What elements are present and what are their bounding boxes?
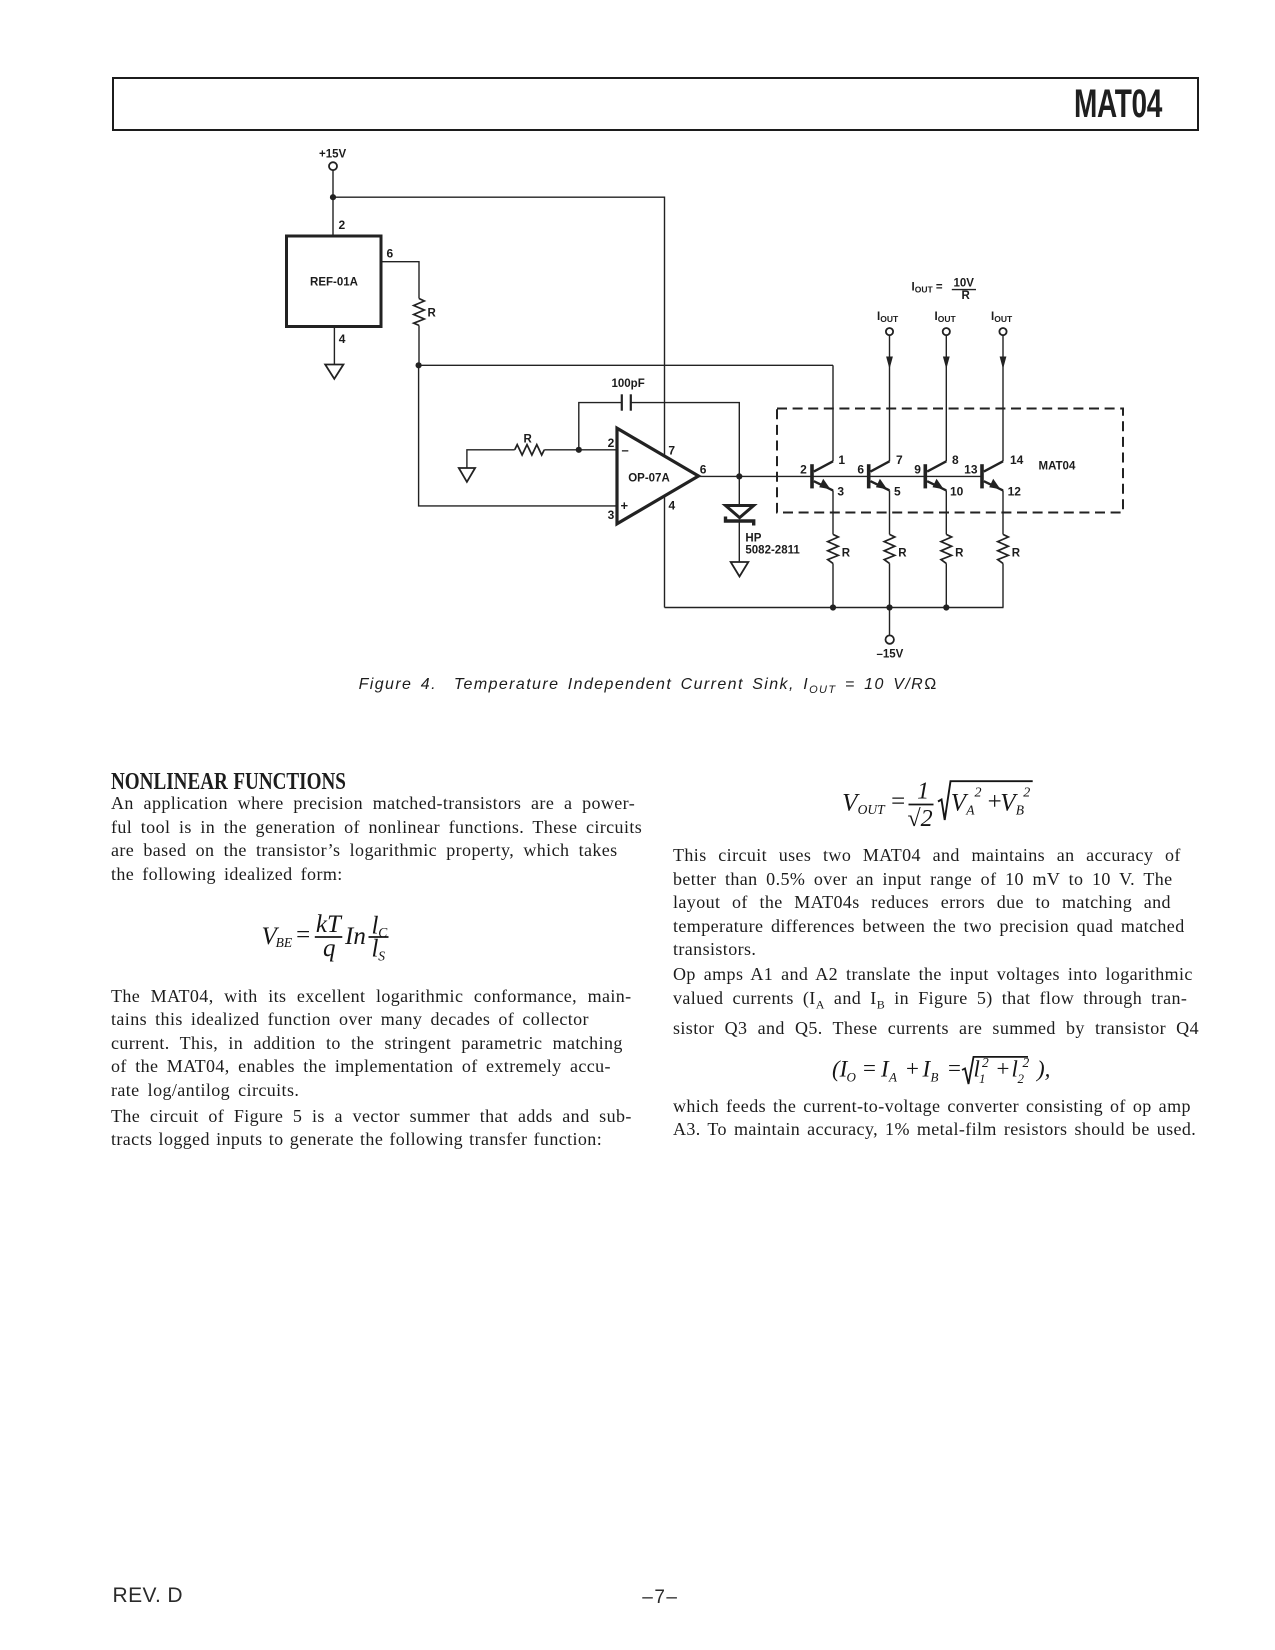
svg-text:MAT04: MAT04 [1039,460,1076,472]
svg-text:REF-01A: REF-01A [310,277,358,289]
svg-text:1: 1 [979,1071,986,1086]
svg-text:+: + [621,498,629,513]
node reference voltage [416,362,422,368]
figure caption [11,676,1275,696]
transistor Q2 base bar [867,464,871,488]
svg-text:A: A [888,1069,897,1084]
+15V terminal [329,162,337,170]
junction +15V node [330,194,336,200]
right column paragraph 3 [673,1095,1196,1142]
resistor R4 (Q2 emitter) [884,534,895,563]
svg-text:O: O [847,1069,857,1084]
wire +15V rail to op-amp pin 7 [333,197,665,456]
svg-text:–15V: –15V [877,649,904,661]
transistor Q1 collector lead [814,461,833,471]
svg-text:4: 4 [669,499,676,513]
I_O formula [825,1048,1060,1092]
dashed package outline MAT04 [777,409,1123,513]
svg-text:10V: 10V [954,277,975,289]
wire REF-01A pin 4 to ground [333,327,335,365]
wire Q1 collector riser [832,365,834,461]
svg-text:2: 2 [1018,1071,1025,1086]
V_BE formula [255,905,420,967]
REF-01A U1 box [287,236,382,327]
wire R6 to rail [1002,563,1004,607]
transistor Q4 collector lead [984,461,1003,471]
transistor Q1 emitter arrow [819,479,830,489]
svg-text:kT: kT [316,911,343,938]
svg-text:6: 6 [387,247,394,261]
wire R3 to rail [832,563,834,607]
wire +15V to REF-01A pin 2 [332,170,334,236]
junction rail Q3 [943,604,949,610]
svg-text:5: 5 [894,485,901,499]
left column paragraph 1 [111,792,642,886]
wire IOUT 1 to Q2 collector [889,335,891,461]
wire Q4 emitter to R6 [1002,490,1004,534]
right column paragraph 2 [673,963,1199,1040]
svg-text:BE: BE [276,935,293,950]
svg-text:+: + [905,1056,921,1081]
svg-text:7: 7 [668,444,675,458]
svg-text:R: R [428,308,437,320]
svg-text:4: 4 [339,332,346,346]
transistor Q3 emitter lead [927,481,946,490]
transistor Q3 emitter arrow [933,479,944,489]
wire output node to diode D1 [738,476,740,505]
svg-text:B: B [1016,803,1024,818]
wire R2 to inverting node [544,449,616,451]
transistor Q4 emitter lead [984,481,1003,490]
svg-text:R: R [524,433,533,445]
transistor Q1 emitter lead [814,481,833,490]
right column paragraph 1 [673,844,1185,962]
wire R4 to rail [889,563,891,607]
svg-text:R: R [842,548,851,560]
V_OUT formula [835,772,1045,834]
schematic figure 4 [0,0,1275,670]
wire capacitor to output node [631,403,740,477]
resistor R1 (reference set) [414,299,425,326]
svg-text:B: B [931,1069,939,1084]
svg-text:10: 10 [950,485,964,499]
transistor Q3 base bar [924,464,928,488]
transistor Q1 base bar [810,464,814,488]
diode D1 schottky cathode bar [726,517,754,526]
svg-text:1: 1 [838,453,845,467]
svg-text:R: R [1012,548,1021,560]
svg-text:HP: HP [745,533,761,545]
svg-text:13: 13 [964,463,978,477]
wire R1 to reference node [418,325,420,365]
wire Q1 emitter to R3 [832,490,834,534]
svg-text:R: R [962,290,971,302]
svg-text:2: 2 [339,218,346,232]
svg-text:OUT: OUT [858,802,886,817]
left column heading [111,770,346,794]
wire Q2 emitter to R4 [889,490,891,534]
svg-text:=: = [295,922,312,949]
wire Q3 emitter to R5 [945,490,947,534]
svg-text:7: 7 [896,453,903,467]
svg-text:IOUT: IOUT [991,311,1013,324]
svg-text:R: R [955,548,964,560]
current arrow 1 [886,357,893,370]
ground (diode) [731,562,749,577]
wire IOUT 3 to Q4 collector [1002,335,1004,461]
wire R5 to rail [945,563,947,607]
footer page number [23,1587,1275,1609]
capacitor C1 100pF plates [621,394,623,410]
transistor Q4 emitter arrow [989,479,1000,489]
svg-text:6: 6 [857,463,864,477]
resistor R5 (Q3 emitter) [941,534,952,563]
svg-text:–: – [622,442,629,457]
ground (input resistor) [459,468,475,482]
svg-text:8: 8 [952,453,959,467]
resistor R3 (Q1 emitter) [828,534,839,563]
wire ground to input resistor [467,450,515,468]
node inverting input [576,447,582,453]
svg-text:+: + [995,1056,1011,1081]
wire node to Q1 collector [419,364,833,366]
resistor R6 (Q4 emitter) [998,534,1009,563]
transistor Q2 collector lead [871,461,890,471]
svg-text:In: In [344,923,366,950]
op-amp U2 OP-07A body [617,428,699,524]
svg-text:S: S [378,949,385,964]
svg-text:3: 3 [837,485,844,499]
wire IOUT 2 to Q3 collector [945,335,947,461]
svg-text:),: ), [1035,1057,1050,1082]
resistor R2 (input) [515,445,545,455]
MAT04 part number logotype [1022,82,1162,127]
svg-text:9: 9 [914,463,921,477]
svg-text:=: = [862,1056,878,1081]
wire pin 6 to resistor R1 [383,262,420,299]
IOUT equation: IOUT = 10V/R [912,277,975,302]
wire diode to ground [738,521,740,562]
svg-text:IOUT: IOUT [935,311,957,324]
svg-text:3: 3 [608,508,615,522]
svg-text:IOUT: IOUT [877,311,899,324]
wire inverting node up to capacitor [579,403,621,450]
junction rail Q2 [886,604,892,610]
svg-text:2: 2 [975,785,982,800]
svg-text:2: 2 [800,463,807,477]
current arrow 3 [1000,357,1007,370]
wire node to op-amp non-inverting input [419,365,616,506]
left column paragraph 2 [111,985,632,1103]
transistor Q2 emitter lead [871,481,890,490]
svg-text:A: A [965,803,975,818]
footer revision [113,1584,184,1608]
transistor Q4 base bar [980,464,984,488]
-15V terminal [886,635,894,643]
ground (REF-01A) [325,365,343,379]
svg-text:1: 1 [917,779,929,805]
wire op-amp output to base rail [699,475,981,477]
wire -15V stub [889,608,891,636]
svg-text:=: = [890,788,907,815]
node output [736,473,742,479]
header rule box [112,77,1199,131]
svg-text:12: 12 [1008,485,1022,499]
svg-text:6: 6 [700,463,707,477]
IOUT terminal 1 [886,328,893,335]
left column paragraph 3 [111,1105,632,1152]
current arrow 2 [943,357,950,370]
svg-text:OP-07A: OP-07A [628,472,670,484]
svg-text:+15V: +15V [319,149,347,161]
svg-text:R: R [898,548,907,560]
svg-text:2: 2 [608,436,615,450]
transistor Q2 emitter arrow [876,479,887,489]
svg-text:5082-2811: 5082-2811 [745,544,800,556]
-15V bottom rail [665,607,1004,609]
wire op-amp pin 4 to -15V rail [664,496,666,608]
svg-text:100pF: 100pF [612,378,645,390]
diode D1 body [726,506,754,518]
svg-text:IOUT =: IOUT = [912,282,943,295]
IOUT terminal 2 [943,328,950,335]
svg-text:q: q [323,935,336,962]
junction rail Q1 [830,604,836,610]
transistor Q3 collector lead [927,461,946,471]
svg-text:2: 2 [1023,785,1030,800]
svg-text:=: = [947,1056,963,1081]
IOUT terminal 3 [999,328,1006,335]
svg-text:14: 14 [1010,453,1024,467]
svg-text:√2: √2 [908,806,933,832]
